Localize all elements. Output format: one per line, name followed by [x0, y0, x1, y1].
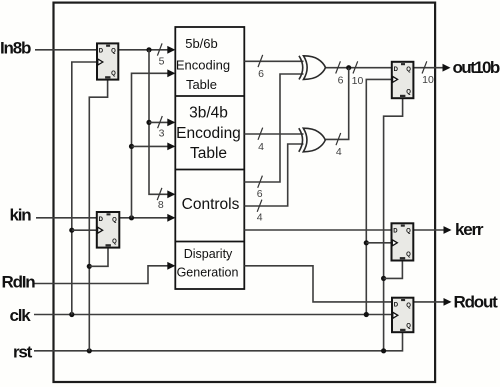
flip-flop FF3 output register kerr	[392, 223, 414, 260]
port label out10b	[453, 58, 500, 77]
arrowhead out10b	[443, 64, 451, 72]
bus width label 4	[336, 146, 342, 158]
wire clk rail to FF4 clock	[34, 314, 392, 316]
arrowhead into 5b/6b input 1	[167, 46, 175, 54]
junction clk rail right riser	[364, 312, 369, 317]
svg-text:Disparity: Disparity	[184, 247, 233, 261]
wire riser from FF1 node down to Controls	[149, 50, 174, 195]
junction FF1 output node	[146, 47, 151, 52]
svg-text:Q: Q	[406, 303, 411, 309]
wire kin riser up to 5b/6b second input	[132, 73, 175, 218]
wire XOR1 output to FF5 D	[326, 67, 392, 69]
svg-text:Generation: Generation	[177, 265, 239, 279]
junction rst riser to FF3 clear branch	[381, 276, 386, 281]
svg-text:Rdout: Rdout	[454, 292, 499, 311]
svg-text:clk: clk	[10, 306, 32, 325]
bus slash 4	[336, 133, 341, 145]
wire FF4 Q to Rdout port	[413, 301, 450, 303]
bus slash 6	[258, 176, 263, 188]
svg-text:Controls: Controls	[182, 196, 240, 213]
junction kin riser to 3b/4b branch	[129, 144, 134, 149]
bus width label 5	[159, 55, 165, 67]
svg-text:10: 10	[422, 74, 434, 86]
arrowhead Rdout	[444, 298, 452, 306]
wire FF2 Q to Controls	[119, 217, 174, 219]
svg-text:6: 6	[257, 188, 263, 200]
block label 5b/6b Encoding Table	[176, 36, 230, 92]
block label Controls	[182, 196, 240, 213]
junction rst riser to FF2 clear branch	[87, 264, 92, 269]
svg-text:8: 8	[158, 199, 164, 211]
svg-text:Encoding: Encoding	[176, 125, 241, 142]
wire FF3 clear down to rst riser	[384, 261, 403, 279]
bus slash 6	[336, 61, 341, 73]
svg-text:Table: Table	[186, 77, 217, 92]
junction rst rail right riser	[381, 348, 386, 353]
port label kerr	[455, 220, 484, 239]
bus slash 4	[258, 128, 263, 140]
svg-text:RdIn: RdIn	[2, 273, 36, 292]
bus slash 3	[158, 116, 163, 128]
bus width label 3	[159, 128, 165, 140]
wire In8b input to FF1 D	[35, 49, 97, 51]
encoder core block	[175, 27, 244, 289]
block label 3b/4b Encoding Table	[176, 105, 241, 163]
port label kin	[10, 206, 32, 225]
svg-text:Table: Table	[190, 145, 227, 162]
wire RdIn input to Disparity Generation	[34, 266, 174, 284]
port label clk	[10, 306, 32, 325]
svg-text:D: D	[393, 228, 398, 234]
svg-text:Q: Q	[111, 71, 116, 77]
wire FF3 Q to kerr port	[413, 229, 450, 231]
wire branch to FF3 clock	[366, 242, 391, 244]
wire clk right riser to FF5 clock	[366, 79, 392, 314]
arrowhead into Controls input 1	[167, 190, 175, 198]
wire branch kin to 3b/4b second input	[132, 145, 175, 147]
svg-text:D: D	[394, 303, 399, 309]
wire FF1 Q to 5b/6b table (bus 5)	[118, 49, 174, 51]
arrowhead into 3b/4b input 2	[167, 143, 175, 151]
svg-text:rst: rst	[13, 343, 33, 362]
svg-text:Encoding: Encoding	[176, 57, 230, 72]
port label Rdout	[454, 292, 499, 311]
wire FF5 clear down to rst right riser	[384, 98, 403, 351]
wire Disparity output to FF4 D	[244, 266, 392, 302]
svg-text:Q: Q	[406, 324, 411, 330]
arrowhead into 5b/6b input 2	[167, 69, 175, 77]
wire branch to 3b/4b table (bus 3)	[149, 121, 174, 123]
svg-text:D: D	[99, 217, 104, 223]
svg-text:5: 5	[159, 55, 165, 67]
bus width label 4	[257, 212, 263, 224]
junction rst rail left riser	[87, 348, 92, 353]
junction riser to 3b/4b branch	[146, 120, 151, 125]
svg-text:Q: Q	[112, 217, 117, 223]
svg-text:3b/4b: 3b/4b	[189, 105, 228, 122]
junction clk riser to FF2 clock branch	[69, 228, 74, 233]
bus width label 4	[258, 141, 264, 153]
bus slash 10	[422, 61, 427, 73]
svg-text:Q: Q	[406, 90, 411, 96]
wire 5b/6b output to XOR1 (bus 6)	[244, 60, 303, 62]
wire rst left riser to FF1 clear	[89, 80, 107, 351]
bus slash 10	[353, 61, 358, 73]
svg-text:D: D	[99, 48, 104, 54]
wire rst rail to FF4 clear	[34, 332, 403, 351]
svg-text:4: 4	[257, 212, 263, 224]
flip-flop FF5 output register out10b	[392, 62, 414, 98]
port label In8b	[0, 39, 31, 58]
flip-flop FF4 output register Rdout	[392, 298, 413, 333]
block label Disparity Generation	[177, 247, 239, 280]
junction clk rail left riser	[69, 312, 74, 317]
arrowhead kerr	[444, 226, 452, 234]
svg-text:3: 3	[159, 128, 165, 140]
junction clk riser to FF3 clock branch	[364, 240, 369, 245]
svg-text:kin: kin	[10, 206, 32, 225]
flip-flop FF2 input register kin	[97, 212, 120, 248]
bus width label 10	[352, 75, 364, 87]
wire branch to FF2 clock	[72, 229, 97, 231]
svg-text:5b/6b: 5b/6b	[185, 36, 218, 51]
bus slash 5	[157, 43, 162, 55]
flip-flop FF1 input register In8b	[97, 43, 118, 79]
svg-text:D: D	[394, 67, 399, 73]
bus slash 6	[258, 55, 263, 67]
bus width label 10	[422, 74, 434, 86]
wire branch to FF2 clear	[89, 248, 108, 267]
wire FF5 Q to out10b port (bus 10)	[413, 67, 449, 69]
port label rst	[13, 343, 33, 362]
junction 6+4 merge node	[346, 65, 351, 70]
wire Controls output 3 to FF3 D (kerr)	[244, 229, 391, 231]
svg-text:Q: Q	[111, 49, 116, 55]
svg-text:Q: Q	[406, 229, 411, 235]
svg-text:10: 10	[352, 75, 364, 87]
bus width label 6	[257, 188, 263, 200]
xor gate U1 (6-bit merge)	[299, 56, 326, 80]
svg-text:6: 6	[258, 68, 264, 80]
wire kin input to FF2 D	[36, 217, 97, 219]
xor gate U2 (4-bit merge)	[299, 128, 326, 152]
arrowhead into Disparity Generation	[167, 262, 175, 270]
port label RdIn	[2, 273, 36, 292]
svg-text:out10b: out10b	[453, 58, 500, 77]
svg-text:kerr: kerr	[455, 220, 484, 239]
arrowhead into 3b/4b input 1	[167, 119, 175, 127]
svg-text:Q: Q	[406, 67, 411, 73]
arrowhead into Controls input 2	[167, 214, 175, 222]
bus slash 4	[257, 200, 262, 212]
wire XOR2 output up to merge node (bus 4)	[325, 68, 348, 140]
bus width label 8	[158, 199, 164, 211]
wire Controls output 1 up to XOR1 second input (bus 6)	[244, 74, 303, 182]
svg-text:6: 6	[338, 74, 344, 86]
outer enclosure border	[54, 3, 436, 382]
svg-text:Q: Q	[112, 239, 117, 245]
svg-text:In8b: In8b	[0, 39, 31, 58]
junction kin riser node	[129, 215, 134, 220]
wire 3b/4b output to XOR2 (bus 4)	[244, 133, 303, 135]
svg-text:Q: Q	[406, 252, 411, 258]
bus width label 6	[258, 68, 264, 80]
bus width label 6	[338, 74, 344, 86]
svg-text:4: 4	[336, 146, 342, 158]
bus slash 8	[157, 188, 162, 200]
wire clk left riser to FF1 clock	[72, 62, 97, 315]
wire Controls output 2 up to XOR2 second input (bus 4)	[244, 144, 303, 206]
svg-text:4: 4	[258, 141, 264, 153]
